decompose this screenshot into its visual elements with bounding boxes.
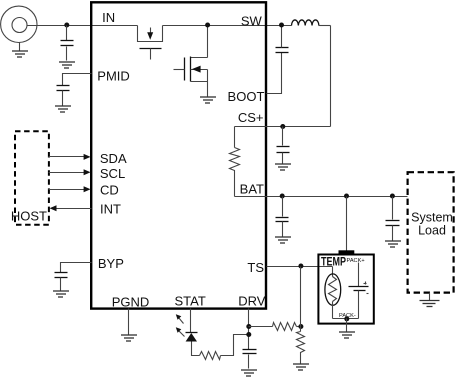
svg-text:CD: CD: [100, 183, 119, 198]
svg-text:SDA: SDA: [100, 151, 127, 166]
svg-text:System: System: [411, 210, 453, 224]
svg-text:DRV: DRV: [238, 294, 266, 309]
svg-text:SCL: SCL: [100, 166, 125, 181]
svg-text:STAT: STAT: [175, 294, 206, 309]
svg-text:BAT: BAT: [240, 181, 264, 196]
svg-text:CS+: CS+: [238, 110, 264, 125]
svg-text:SW: SW: [241, 13, 263, 28]
svg-text:TEMP: TEMP: [321, 257, 346, 269]
svg-text:HOST: HOST: [11, 208, 47, 223]
svg-text:BYP: BYP: [98, 256, 124, 271]
svg-text:PMID: PMID: [97, 69, 130, 84]
svg-text:TS: TS: [247, 260, 264, 275]
svg-text:Load: Load: [418, 223, 446, 237]
svg-text:PGND: PGND: [112, 294, 150, 309]
svg-text:BOOT: BOOT: [228, 89, 265, 104]
svg-text:IN: IN: [102, 10, 115, 25]
svg-text:PACK+: PACK+: [347, 258, 365, 264]
svg-text:INT: INT: [100, 202, 121, 217]
